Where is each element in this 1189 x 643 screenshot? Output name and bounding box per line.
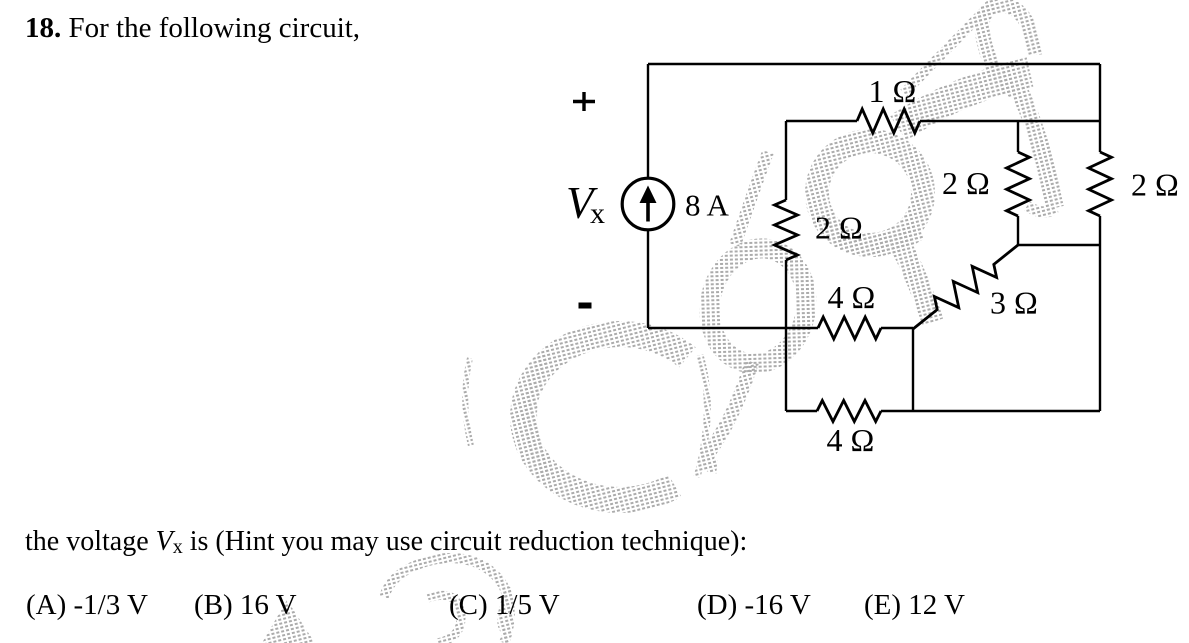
- watermark triangle blob: [262, 600, 315, 643]
- svg-text:2 Ω: 2 Ω: [942, 165, 990, 201]
- svg-text:2 Ω: 2 Ω: [1131, 167, 1179, 203]
- minus polarity mark of Vx: [579, 303, 592, 309]
- wire right vertical upper segment: [1099, 64, 1101, 152]
- resistor R5 2 Ohm (far right vertical): [1089, 152, 1112, 216]
- resistor R7 3 Ohm (diagonal): [913, 245, 1018, 329]
- svg-text:3 Ω: 3 Ω: [990, 285, 1038, 321]
- wire left vertical through source: [647, 64, 649, 328]
- wire middle vertical upper segment: [785, 121, 787, 200]
- resistor R3 4 Ohm (middle horizontal): [818, 317, 881, 339]
- wire top net (node A: source + to R1/R5 top): [648, 63, 1100, 65]
- svg-text:2 Ω: 2 Ω: [815, 210, 863, 246]
- title: [25, 12, 360, 45]
- watermark Copy: [384, 4, 1055, 643]
- circuit: [648, 64, 1100, 411]
- options: [26, 589, 148, 622]
- wire right vertical lower segment: [1099, 216, 1101, 411]
- resistor R1 1 Ohm (top): [857, 109, 920, 133]
- wire R4 top lead segment: [1017, 121, 1019, 152]
- wire bottom rail right segment: [881, 410, 1100, 412]
- wire R1 row right segment: [920, 120, 1100, 122]
- wire junction B down to bottom rail: [912, 328, 914, 411]
- resistor R6 4 Ohm (bottom horizontal): [817, 401, 881, 422]
- wire bottom rail left segment: [786, 410, 817, 412]
- current source I1 8 A (circle with up arrow): [622, 178, 674, 230]
- wire R1 row left segment: [786, 120, 857, 122]
- svg-text:8 A: 8 A: [685, 188, 730, 223]
- wire node C horizontal (R4 bottom to right rail): [1018, 244, 1100, 246]
- svg-text:x: x: [590, 197, 605, 230]
- svg-text:4 Ω: 4 Ω: [827, 422, 875, 458]
- plus polarity mark of Vx: [573, 92, 595, 111]
- svg-text:4 Ω: 4 Ω: [828, 279, 876, 315]
- svg-text:1 Ω: 1 Ω: [869, 73, 917, 109]
- wire middle vertical lower segment: [785, 260, 787, 411]
- wire source minus to R3 left: [648, 327, 818, 329]
- wire R4 bottom lead segment: [1017, 216, 1019, 245]
- question line: [25, 526, 747, 558]
- resistor R4 2 Ohm (inner right vertical): [1007, 152, 1030, 216]
- resistor R2 2 Ohm (middle vertical): [775, 200, 798, 260]
- wire R3 right to junction node B: [881, 327, 913, 329]
